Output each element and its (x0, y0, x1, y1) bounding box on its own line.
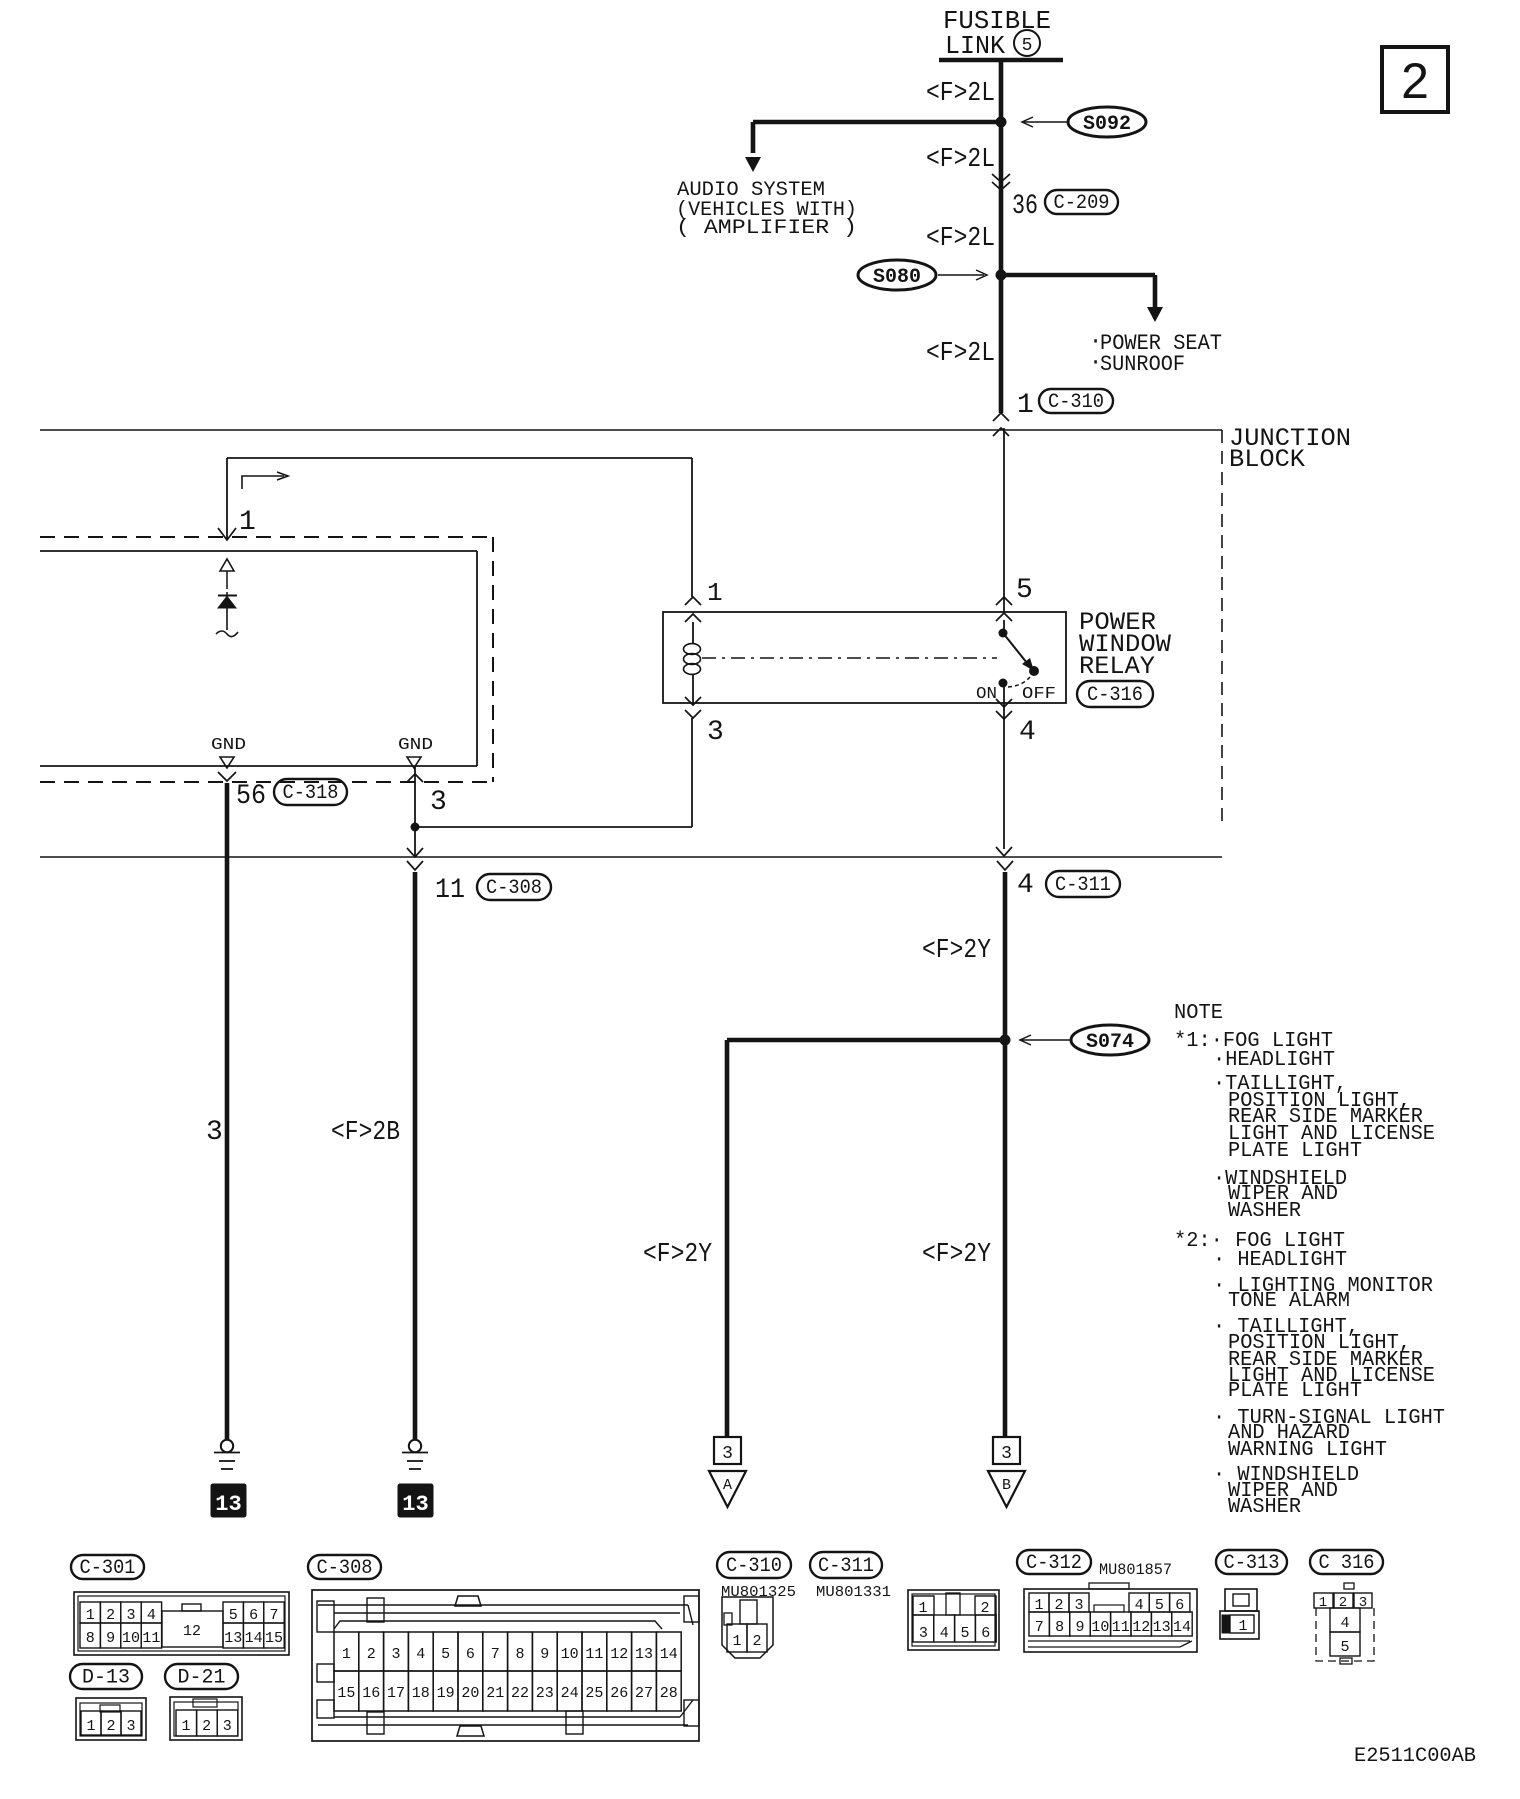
svg-text:11: 11 (142, 1630, 160, 1647)
relay switch contacts (1003, 620, 1005, 633)
node S092 junction (996, 117, 1007, 128)
svg-text:8: 8 (1055, 1619, 1064, 1636)
svg-text:24: 24 (561, 1685, 579, 1702)
svg-text:RELAY: RELAY (1079, 652, 1155, 681)
svg-text:1: 1 (1319, 1595, 1327, 1611)
connector C-209 pass-through (992, 174, 1010, 182)
connector label C-311 (810, 1552, 882, 1578)
svg-text:3: 3 (430, 787, 447, 818)
svg-text:E2511C00AB: E2511C00AB (1354, 1745, 1476, 1768)
svg-text:21: 21 (486, 1685, 504, 1702)
connector label D-13 (70, 1664, 142, 1689)
svg-text:2: 2 (367, 1646, 376, 1663)
svg-text:4: 4 (416, 1646, 425, 1663)
relay coil (692, 622, 694, 644)
svg-text:5: 5 (1022, 36, 1033, 56)
svg-text:MU801331: MU801331 (816, 1584, 891, 1601)
wire (F)2Y from C-311 pin 4 (1003, 872, 1008, 1437)
svg-text:( AMPLIFIER ): ( AMPLIFIER ) (676, 217, 857, 240)
svg-text:C-311: C-311 (818, 1555, 874, 1578)
svg-text:13: 13 (215, 1492, 241, 1517)
ground ref box 13 (211, 1484, 246, 1517)
svg-text:2: 2 (1401, 53, 1429, 109)
node S080 junction (996, 270, 1007, 281)
svg-text:C-310: C-310 (726, 1555, 782, 1578)
wire branch to power seat / sunroof (1001, 273, 1155, 278)
connector C-312 (1024, 1589, 1197, 1652)
connector C-313 (1225, 1589, 1257, 1611)
connector D-13 (76, 1698, 146, 1740)
svg-text:B: B (1002, 1477, 1011, 1494)
svg-text:<F>2Y: <F>2Y (643, 1240, 712, 1270)
svg-text:C-316: C-316 (1087, 684, 1143, 707)
node S074 junction (1000, 1035, 1011, 1046)
svg-text:3: 3 (126, 1718, 135, 1735)
svg-text:5: 5 (960, 1625, 969, 1642)
page ref box 2 (1382, 47, 1448, 112)
svg-text:D-21: D-21 (178, 1667, 226, 1690)
svg-text:C-209: C-209 (1054, 192, 1110, 215)
svg-text:13: 13 (635, 1646, 653, 1663)
svg-text:14: 14 (660, 1646, 678, 1663)
svg-text:5: 5 (1340, 1639, 1349, 1656)
wire relay coil pin 3 to splice (415, 826, 692, 828)
svg-text:7: 7 (491, 1646, 500, 1663)
svg-text:<F>2L: <F>2L (926, 145, 995, 175)
ground ref box 13 (398, 1484, 433, 1517)
svg-text:1: 1 (86, 1607, 95, 1624)
svg-text:WARNING LIGHT: WARNING LIGHT (1228, 1439, 1387, 1462)
splice label S080 (858, 260, 936, 290)
svg-text:11: 11 (1112, 1619, 1130, 1636)
continuation arrow branch (242, 476, 284, 489)
svg-text:8: 8 (86, 1630, 95, 1647)
svg-text:5: 5 (441, 1646, 450, 1663)
svg-text:12: 12 (1132, 1619, 1150, 1636)
wire relay pin 1 to power window main switch pin 1 (227, 457, 692, 459)
svg-text:SUNROOF: SUNROOF (1100, 352, 1185, 377)
svg-text:2: 2 (752, 1633, 761, 1650)
svg-text:3: 3 (707, 717, 724, 748)
svg-text:3: 3 (206, 1117, 223, 1148)
svg-text:D-13: D-13 (82, 1667, 130, 1690)
svg-text:1: 1 (732, 1633, 741, 1650)
svg-text:17: 17 (387, 1685, 405, 1702)
wire switch GND to C-318 pin 56 (218, 772, 236, 781)
svg-text:3: 3 (919, 1625, 928, 1642)
splice label S092 (1068, 107, 1146, 137)
svg-text:<F>2L: <F>2L (926, 339, 995, 369)
svg-text:1: 1 (181, 1718, 190, 1735)
svg-text:9: 9 (1075, 1619, 1084, 1636)
connector D-21 (170, 1697, 242, 1740)
svg-text:19: 19 (437, 1685, 455, 1702)
svg-text:27: 27 (635, 1685, 653, 1702)
wire main battery feed (F)2L (999, 60, 1004, 413)
relay box power window relay (663, 612, 1066, 703)
connector C-311 (908, 1590, 999, 1650)
off-page connector 3/A (714, 1437, 741, 1464)
power window main switch dashed enclosure (40, 536, 493, 538)
svg-text:14: 14 (1173, 1619, 1191, 1636)
svg-text:13: 13 (224, 1630, 242, 1647)
svg-text:OFF: OFF (1022, 685, 1056, 704)
ground symbol right (409, 1440, 421, 1452)
svg-text:1: 1 (1017, 390, 1034, 421)
svg-text:36: 36 (1012, 191, 1038, 222)
svg-text:9: 9 (540, 1646, 549, 1663)
svg-text:ON: ON (976, 685, 997, 704)
svg-text:<F>2L: <F>2L (926, 224, 995, 254)
svg-text:C-313: C-313 (1224, 1552, 1280, 1575)
connector label C-316 (1310, 1550, 1383, 1574)
ground symbol left (221, 1440, 233, 1452)
svg-text:8: 8 (515, 1646, 524, 1663)
svg-text:22: 22 (511, 1685, 529, 1702)
off-page connector 3/B (993, 1437, 1020, 1464)
power window main switch inner box (40, 550, 477, 552)
svg-text:C 316: C 316 (1319, 1552, 1375, 1575)
svg-text:12: 12 (610, 1646, 628, 1663)
svg-text:11: 11 (435, 875, 465, 906)
svg-text:4: 4 (1017, 870, 1034, 901)
svg-text:PLATE LIGHT: PLATE LIGHT (1228, 1140, 1362, 1163)
svg-text:C-312: C-312 (1026, 1552, 1082, 1575)
svg-text:S074: S074 (1086, 1031, 1134, 1054)
svg-text:·HEADLIGHT: ·HEADLIGHT (1213, 1049, 1335, 1072)
svg-text:C-311: C-311 (1055, 874, 1111, 897)
svg-text:S092: S092 (1083, 113, 1131, 136)
connector label C-313 (1216, 1550, 1287, 1574)
connector C-310 (722, 1597, 773, 1658)
svg-text:LINK: LINK (945, 31, 1005, 61)
svg-text:<F>2B: <F>2B (331, 1118, 400, 1148)
svg-text:<F>2Y: <F>2Y (922, 1240, 991, 1270)
relay pin 3 (685, 697, 701, 705)
svg-text:11: 11 (585, 1646, 603, 1663)
svg-text:5: 5 (229, 1607, 238, 1624)
connector C-308 (312, 1590, 699, 1741)
svg-text:GND: GND (398, 736, 433, 755)
svg-text:26: 26 (610, 1685, 628, 1702)
svg-text:3: 3 (722, 1444, 733, 1464)
connector label C-316 (1077, 681, 1153, 707)
svg-text:4: 4 (940, 1625, 949, 1642)
svg-text:TONE ALARM: TONE ALARM (1228, 1290, 1350, 1313)
svg-text:2: 2 (106, 1607, 115, 1624)
svg-text:4: 4 (147, 1607, 156, 1624)
svg-text:12: 12 (183, 1623, 201, 1640)
wire to C-308 pin 11 (407, 848, 423, 857)
svg-text:9: 9 (106, 1630, 115, 1647)
svg-text:WASHER: WASHER (1228, 1496, 1301, 1519)
node splice pin3/relay coil (411, 823, 420, 832)
svg-text:3: 3 (126, 1607, 135, 1624)
svg-text:C-318: C-318 (283, 782, 339, 805)
svg-text:6: 6 (249, 1607, 258, 1624)
svg-text:MU801857: MU801857 (1099, 1561, 1172, 1579)
svg-text:15: 15 (337, 1685, 355, 1702)
relay coil-contact link (dash-dot) (702, 657, 997, 659)
svg-text:23: 23 (536, 1685, 554, 1702)
svg-text:3: 3 (223, 1718, 232, 1735)
svg-text:C-310: C-310 (1048, 391, 1104, 414)
connector label C-308 (308, 1555, 381, 1579)
svg-text:<F>2Y: <F>2Y (922, 936, 991, 966)
wire relay pin 4 through boundary to C-311 pin 4 (996, 847, 1012, 856)
connector label C-301 (71, 1555, 144, 1579)
svg-text:28: 28 (660, 1685, 678, 1702)
junction block right boundary (1221, 430, 1223, 828)
svg-text:PLATE LIGHT: PLATE LIGHT (1228, 1380, 1362, 1403)
svg-text:4: 4 (1340, 1615, 1349, 1632)
wire switch GND pin 3 (407, 774, 423, 782)
connector C-316 (1344, 1583, 1354, 1589)
svg-text:18: 18 (412, 1685, 430, 1702)
relay pin 5 (996, 597, 1012, 605)
connector C-301 (74, 1592, 289, 1655)
svg-text:S080: S080 (873, 266, 921, 289)
svg-text:1: 1 (1238, 1618, 1247, 1635)
svg-text:2: 2 (202, 1718, 211, 1735)
connector label C-310 (717, 1552, 791, 1578)
connector label C-312 (1017, 1550, 1091, 1574)
relay pin 4 (996, 699, 1012, 707)
wire from relay pin 5 inside junction block (1003, 428, 1005, 612)
svg-text:C-308: C-308 (317, 1557, 373, 1580)
diode branch inside switch (220, 559, 234, 571)
svg-text:1: 1 (342, 1646, 351, 1663)
svg-text:10: 10 (561, 1646, 579, 1663)
junction block bottom boundary (40, 856, 1222, 858)
svg-text:5: 5 (1016, 575, 1033, 606)
wire branch (F)2Y to connector A (727, 1038, 1005, 1043)
svg-text:1: 1 (239, 507, 256, 538)
svg-text:· HEADLIGHT: · HEADLIGHT (1213, 1249, 1347, 1272)
svg-text:25: 25 (585, 1685, 603, 1702)
svg-text:WASHER: WASHER (1228, 1200, 1301, 1223)
svg-text:A: A (723, 1477, 732, 1494)
svg-text:6: 6 (981, 1625, 990, 1642)
svg-text:GND: GND (211, 736, 246, 755)
svg-text:7: 7 (269, 1607, 278, 1624)
relay pin 1 (685, 597, 701, 605)
svg-text:MU801325: MU801325 (721, 1584, 796, 1601)
svg-text:56: 56 (236, 781, 266, 812)
svg-text:20: 20 (461, 1685, 479, 1702)
svg-text:13: 13 (402, 1492, 428, 1517)
svg-text:C-308: C-308 (486, 877, 542, 900)
svg-text:6: 6 (466, 1646, 475, 1663)
svg-text:13: 13 (1153, 1619, 1171, 1636)
svg-text:7: 7 (1035, 1619, 1044, 1636)
svg-text:<F>2L: <F>2L (926, 79, 995, 109)
connector label D-21 (165, 1664, 238, 1689)
svg-text:1: 1 (86, 1718, 95, 1735)
svg-text:4: 4 (1019, 717, 1036, 748)
junction block top boundary (40, 429, 1222, 431)
splice label S074 (1071, 1025, 1149, 1055)
svg-text:3: 3 (1001, 1444, 1012, 1464)
svg-text:10: 10 (122, 1630, 140, 1647)
svg-text:14: 14 (245, 1630, 263, 1647)
svg-text:2: 2 (106, 1718, 115, 1735)
svg-text:C-301: C-301 (80, 1557, 136, 1580)
svg-text:NOTE: NOTE (1174, 1002, 1223, 1025)
svg-text:10: 10 (1091, 1619, 1109, 1636)
wire branch to audio system (753, 120, 1001, 125)
svg-text:15: 15 (265, 1630, 283, 1647)
svg-text:BLOCK: BLOCK (1229, 445, 1305, 474)
svg-text:16: 16 (362, 1685, 380, 1702)
svg-text:1: 1 (707, 578, 723, 608)
svg-text:3: 3 (391, 1646, 400, 1663)
